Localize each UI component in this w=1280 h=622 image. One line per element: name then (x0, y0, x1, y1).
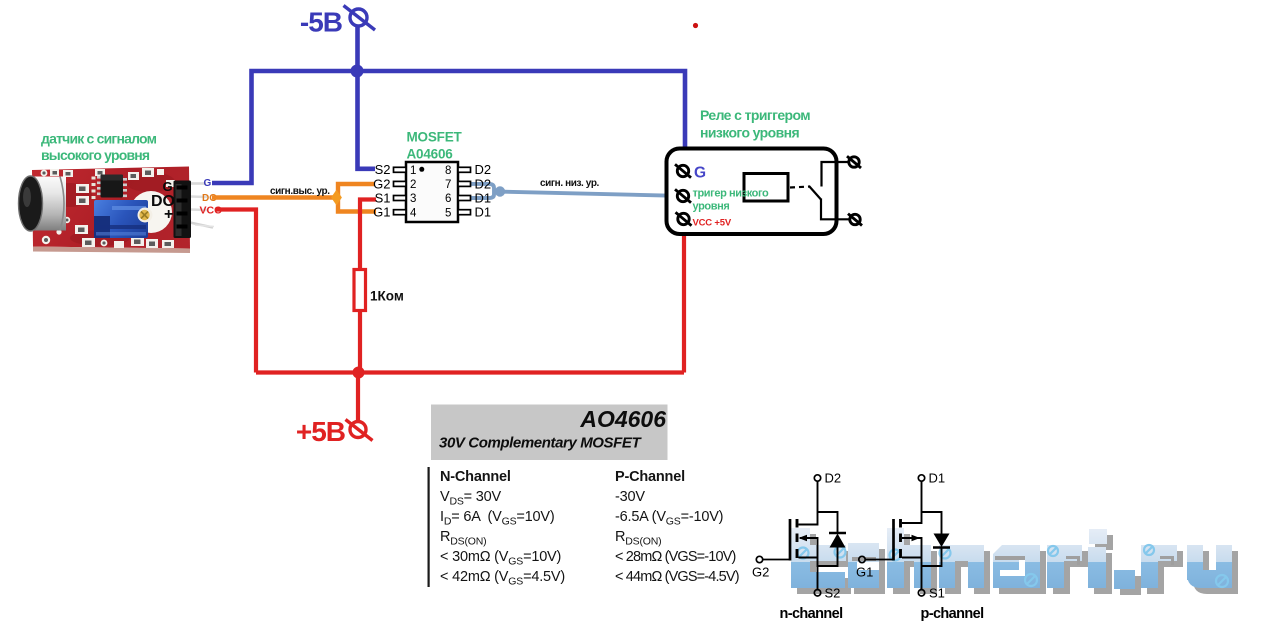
gate lead from G1 (866, 559, 894, 561)
gate plate (892, 519, 895, 561)
svg-text:D2: D2 (475, 176, 492, 191)
op chip U2 MOSFET A04606 (SO-8) (373, 130, 491, 223)
relay body (667, 149, 837, 235)
svg-text:G1: G1 (373, 205, 390, 220)
svg-text:P-Channel: P-Channel (615, 469, 685, 485)
datasheet spec table (440, 469, 739, 588)
svg-text:1Ком: 1Ком (370, 289, 404, 304)
svg-text:сигн.выс. ур.: сигн.выс. ур. (270, 186, 330, 197)
SOIC8 amplifier chip U1 (92, 175, 128, 200)
drain lead (799, 481, 818, 524)
svg-text:высокого уровня: высокого уровня (41, 147, 150, 163)
sensor module board (microphone sound sensor photo) (19, 167, 215, 254)
svg-text:n-channel: n-channel (779, 606, 842, 622)
-5V supply terminal (344, 6, 376, 31)
svg-text:30V Complementary MOSFET: 30V Complementary MOSFET (439, 435, 643, 452)
svg-text:Реле с триггером: Реле с триггером (700, 107, 810, 123)
terminal trigger input (circle-slash) (675, 189, 691, 202)
silkscreen pads and holes (41, 168, 175, 248)
svg-text:G1: G1 (856, 565, 873, 580)
svg-text:S1: S1 (375, 190, 391, 205)
svg-text:S1: S1 (929, 586, 945, 601)
svg-text:G: G (694, 165, 706, 182)
datasheet header box AO4606 (431, 405, 668, 461)
relay coil (744, 174, 788, 202)
svg-text:2: 2 (410, 179, 416, 191)
svg-text:4: 4 (410, 207, 417, 219)
svg-text:VCC +5V: VCC +5V (693, 218, 732, 229)
svg-text:< 42mΩ (VGS=4.5V): < 42mΩ (VGS=4.5V) (440, 569, 565, 588)
node: steel-blue junction (495, 186, 505, 196)
svg-text:8: 8 (445, 165, 451, 177)
white silkscreen circle (130, 191, 172, 233)
svg-text:D2: D2 (475, 162, 492, 177)
microphone capsule (19, 176, 67, 231)
svg-text:< 30mΩ (VGS=10V): < 30mΩ (VGS=10V) (440, 549, 561, 568)
svg-text:6: 6 (445, 193, 451, 205)
terminal NO contact (circle-slash) (848, 214, 862, 226)
terminal G1 (859, 556, 865, 562)
switch blade (809, 186, 821, 200)
svg-text:+: + (164, 206, 173, 223)
svg-text:ID= 6A (VGS=10V): ID= 6A (VGS=10V) (440, 509, 555, 528)
terminal VCC (circle-slash) (676, 212, 692, 225)
svg-text:7: 7 (445, 179, 451, 191)
wire red: rail up to relay VCC terminal (682, 226, 686, 373)
terminal G2 (756, 556, 762, 562)
svg-text:AO4606: AO4606 (579, 406, 666, 432)
terminal S1 (918, 590, 924, 596)
svg-text:уровня: уровня (693, 201, 730, 213)
watermark slashed-circle badges (798, 545, 1229, 587)
pin leads left (pins 1-4) (394, 167, 471, 214)
terminal D1 (918, 475, 924, 481)
wire blue: sensor G to -5V rail and relay G (212, 71, 685, 183)
terminal S2 (814, 590, 820, 596)
svg-text:A04606: A04606 (407, 147, 454, 162)
trimpot RV1 (94, 200, 153, 238)
transistor Q1 n-channel symbol (756, 475, 846, 596)
wire red: junction to +5V terminal (356, 373, 360, 422)
svg-text:3: 3 (410, 193, 416, 205)
terminal NC contact (circle-slash) (847, 156, 861, 168)
+5V supply terminal (346, 420, 373, 441)
svg-text:VDS= 30V: VDS= 30V (440, 489, 501, 508)
svg-text:тригер низкого: тригер низкого (693, 188, 770, 200)
drain lead (902, 481, 922, 523)
pin header J1 (174, 181, 215, 239)
svg-text:D1: D1 (475, 205, 492, 220)
wire blue: rail drop to IC pin S2 (358, 71, 376, 169)
pin names right (475, 162, 492, 219)
svg-text:+5В: +5В (296, 416, 345, 447)
wire steel-blue: IC pins D2/D1 bracket (471, 184, 495, 192)
diode top branch (922, 512, 942, 534)
pin names left (373, 162, 390, 219)
channel segments (796, 519, 799, 558)
svg-text:G: G (204, 178, 212, 189)
switch common path to lower contact (821, 199, 849, 220)
svg-text:сигн. низ. ур.: сигн. низ. ур. (540, 178, 600, 189)
wire steel-blue: signal to relay trigger input (494, 192, 677, 196)
upper contact post (822, 162, 850, 187)
body diode D (triangle down) (934, 534, 950, 548)
node: orange diamond junction (332, 191, 341, 204)
datasheet left rule (428, 467, 430, 587)
svg-text:< 28mΩ (VGS=-10V): < 28mΩ (VGS=-10V) (615, 549, 736, 565)
labels for Q2 pins (856, 471, 945, 601)
svg-text:MOSFET: MOSFET (407, 130, 463, 145)
labels for Q1 pins (752, 471, 841, 601)
terminal G (circle-slash) (675, 164, 691, 177)
body lead with arrow (800, 538, 818, 590)
gate lead from G2 (763, 559, 790, 561)
relay module K1 (low level trigger) (667, 107, 863, 234)
svg-text:G2: G2 (752, 565, 769, 580)
svg-text:S2: S2 (375, 162, 391, 177)
svg-text:S2: S2 (825, 586, 841, 601)
pin leads right (pins 8-5) (458, 167, 471, 172)
svg-text:-5В: -5В (300, 7, 342, 38)
svg-text:G: G (163, 179, 173, 194)
diode top branch (818, 512, 838, 533)
dashed actuator link (790, 187, 810, 188)
svg-text:D1: D1 (929, 471, 946, 486)
transistor Q2 p-channel symbol (859, 475, 950, 596)
wire red: +5V bottom rail (256, 370, 684, 374)
node: red junction on +5V rail (353, 367, 365, 379)
channel segments (899, 519, 902, 558)
svg-text:низкого уровня: низкого уровня (700, 125, 799, 141)
terminal D2 (814, 475, 820, 481)
wire red: sensor VCC down to +5V rail (216, 210, 256, 373)
pin 1 marker dot (419, 167, 424, 172)
gate plate (789, 519, 792, 561)
svg-text:< 44mΩ (VGS=-4.5V): < 44mΩ (VGS=-4.5V) (615, 569, 739, 585)
svg-text:-30V: -30V (615, 489, 645, 505)
wire blue: -5V terminal stem (355, 27, 360, 72)
wire red: resistor to rail (358, 311, 362, 373)
resistor R1 1kOhm (354, 270, 366, 311)
IC body (406, 162, 458, 222)
svg-text:G2: G2 (373, 176, 390, 191)
watermark tehnari.ru shadow (797, 534, 1238, 595)
body lead with arrow (902, 538, 922, 590)
watermark tehnari.ru letters (791, 528, 1232, 589)
svg-text:D2: D2 (825, 471, 842, 486)
source lead (902, 557, 922, 559)
svg-text:p-channel: p-channel (920, 606, 983, 622)
svg-text:1: 1 (410, 165, 416, 177)
svg-text:D1: D1 (475, 190, 492, 205)
wire orange: sensor DO to gate splitter (212, 195, 333, 199)
source lead (799, 557, 818, 559)
wire orange: splitter to G2 and G1 (338, 184, 376, 212)
node: blue junction on -5V rail (351, 65, 364, 78)
pin numbers (410, 165, 451, 219)
wire red: IC pin S1 down to resistor (360, 200, 376, 271)
body diode D (triangle up) (829, 532, 846, 535)
svg-text:5: 5 (445, 207, 451, 219)
svg-text:датчик с сигналом: датчик с сигналом (41, 131, 157, 147)
PCB board (32, 167, 190, 249)
stray red dot (693, 23, 698, 28)
svg-text:N-Channel: N-Channel (440, 469, 511, 485)
